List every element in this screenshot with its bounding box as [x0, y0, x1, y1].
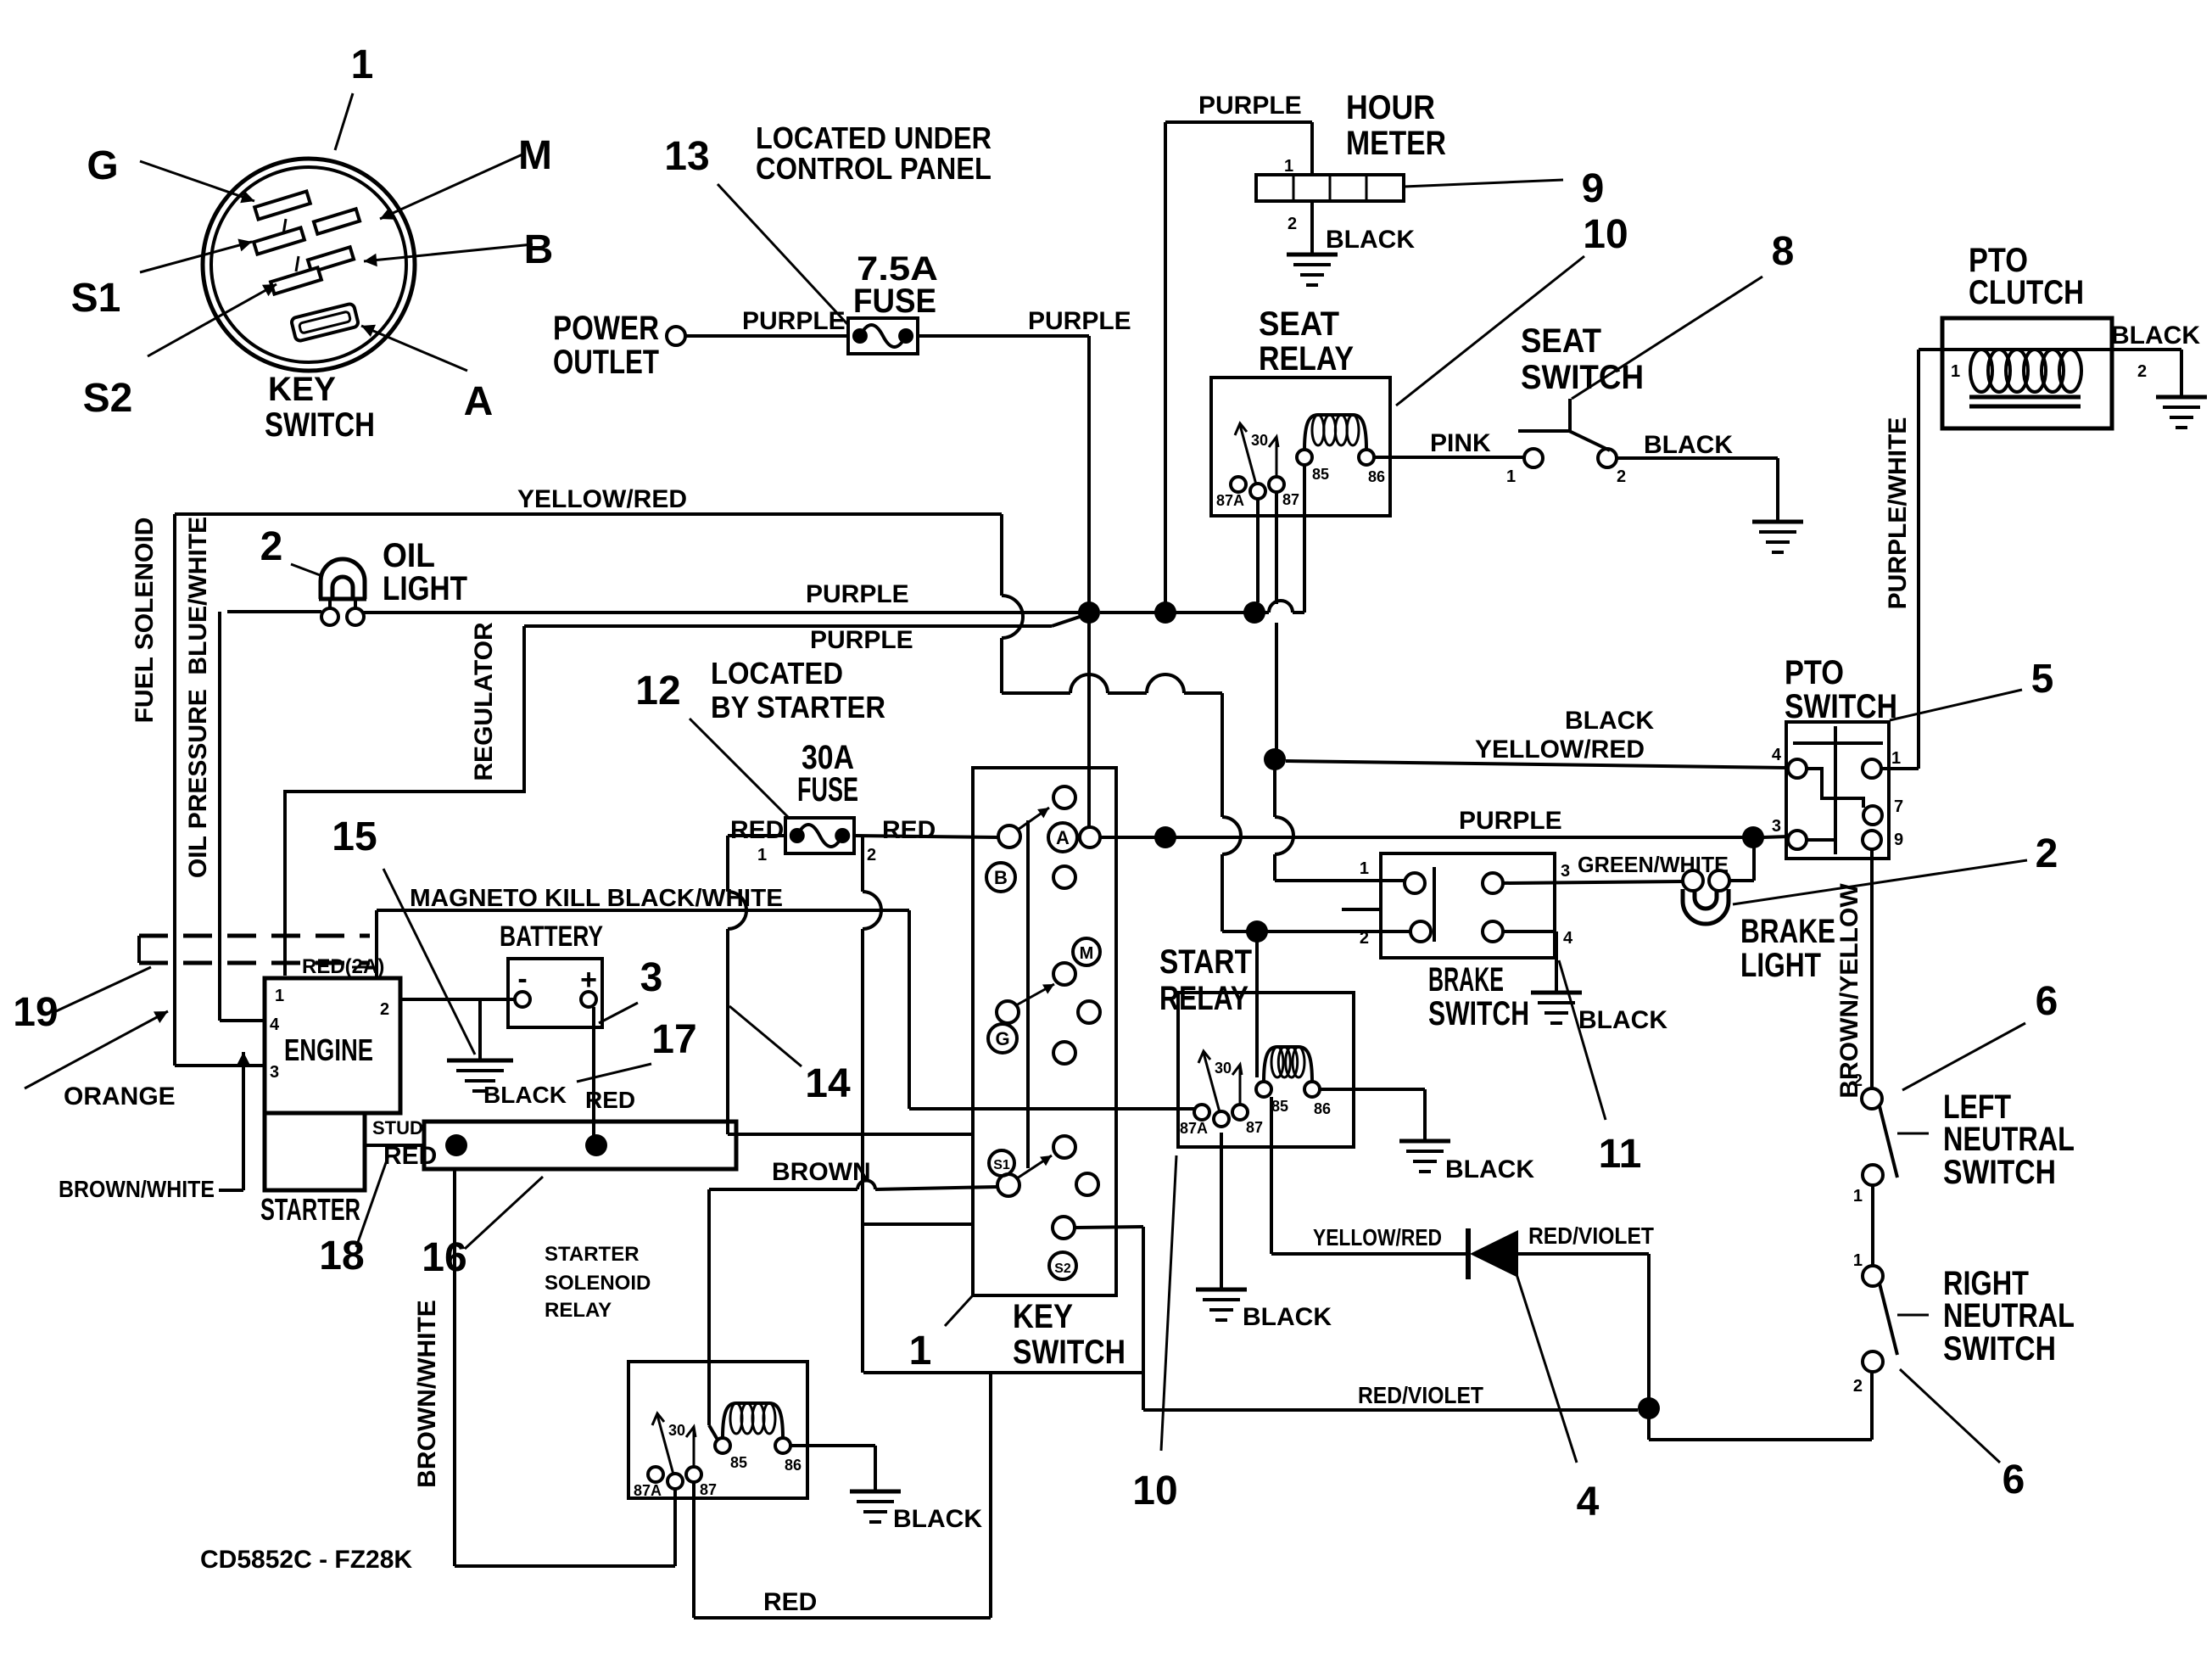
- key switch terminal M: [1073, 938, 1100, 965]
- svg-text:CLUTCH: CLUTCH: [1969, 274, 2084, 311]
- svg-text:86: 86: [1314, 1100, 1331, 1117]
- seat relay box: [1211, 378, 1390, 516]
- svg-text:1: 1: [1284, 157, 1293, 176]
- wire brake switch 4 to ground: [1503, 930, 1556, 933]
- wire yellow/red node to brake switch 2 and start relay: [1246, 920, 1268, 943]
- svg-text:RED: RED: [763, 1588, 817, 1616]
- svg-text:2: 2: [260, 524, 283, 569]
- svg-text:PURPLE: PURPLE: [1459, 807, 1562, 835]
- svg-text:FUSE: FUSE: [797, 771, 858, 808]
- key switch arrow B to A: [1018, 808, 1049, 830]
- wire BROWN/WHITE label+arrow: [219, 1189, 243, 1192]
- engine box: [265, 978, 400, 1113]
- svg-text:3: 3: [1561, 862, 1570, 881]
- wire seat relay 86 to seat switch (PINK): [1374, 456, 1524, 459]
- leader arrow S2: [148, 284, 276, 356]
- key switch connector internal link 2: [296, 256, 299, 271]
- key switch contact right col low: [1053, 1042, 1075, 1064]
- oil light symbol: [321, 559, 365, 599]
- wire key switch A to purple junction: [1100, 836, 1155, 839]
- relay K3 contacts: [648, 1467, 663, 1482]
- svg-text:S1: S1: [71, 276, 121, 321]
- wire oil pressure vertical: [218, 612, 221, 1021]
- svg-text:3: 3: [270, 1063, 279, 1082]
- pto switch terminal 3: [1788, 831, 1807, 849]
- key switch contact B-row left: [998, 825, 1020, 848]
- wire purple bus lower (regulator branch): [524, 624, 1052, 628]
- fuse F1 7.5A: [848, 318, 918, 354]
- svg-text:BLACK: BLACK: [1326, 226, 1415, 254]
- relay K3 coil: [715, 1438, 730, 1453]
- wire start relay 86 to ground: [1320, 1088, 1425, 1091]
- wire red bottom up to S2 branch: [989, 1373, 992, 1618]
- wire regulator loop: [285, 626, 524, 976]
- key switch contact right col mid: [1078, 1001, 1100, 1023]
- svg-text:STUD: STUD: [372, 1117, 423, 1138]
- svg-text:PURPLE/WHITE: PURPLE/WHITE: [1884, 417, 1912, 610]
- leader line 15 to battery ground: [383, 869, 475, 1055]
- svg-text:BATTERY: BATTERY: [500, 920, 603, 953]
- svg-text:MAGNETO KILL BLACK/WHITE: MAGNETO KILL BLACK/WHITE: [410, 885, 783, 912]
- ground (brake switch): [1531, 991, 1582, 995]
- svg-text:RED: RED: [383, 1142, 437, 1170]
- leader arrow orange wire: [25, 1011, 168, 1088]
- svg-text:RELAY: RELAY: [1259, 340, 1354, 378]
- svg-text:OUTLET: OUTLET: [553, 344, 659, 381]
- solenoid stud terminal right: [585, 1134, 607, 1156]
- wire brown branch down to relay coil: [707, 1189, 711, 1425]
- battery terminals: [515, 992, 530, 1007]
- svg-text:HOUR: HOUR: [1346, 89, 1435, 126]
- wire purple bus middle segment: [1100, 611, 1155, 614]
- ground (pto clutch): [2156, 395, 2207, 400]
- wire pto clutch pin1: [1919, 348, 2181, 351]
- key switch contact S1: [997, 1174, 1019, 1196]
- svg-text:SWITCH: SWITCH: [1785, 688, 1897, 725]
- svg-text:2: 2: [2137, 362, 2147, 381]
- svg-text:10: 10: [1132, 1469, 1177, 1513]
- key switch terminal B: [986, 863, 1015, 892]
- svg-text:CONTROL PANEL: CONTROL PANEL: [756, 151, 991, 186]
- ground (battery): [447, 1059, 513, 1063]
- left neutral switch terminal 2: [1862, 1088, 1882, 1109]
- svg-text:PINK: PINK: [1430, 429, 1491, 457]
- svg-text:FUEL SOLENOID: FUEL SOLENOID: [131, 517, 159, 724]
- svg-text:2: 2: [1853, 1377, 1863, 1396]
- svg-text:G: G: [87, 143, 118, 188]
- brake switch actuator: [1342, 908, 1381, 911]
- wire start relay 30 to ground: [1220, 1133, 1223, 1290]
- svg-text:SWITCH: SWITCH: [265, 406, 375, 444]
- svg-text:PURPLE: PURPLE: [810, 626, 913, 654]
- svg-text:6: 6: [2003, 1457, 2025, 1502]
- wire yellow/red down to start relay node: [1221, 693, 1224, 817]
- svg-text:30: 30: [668, 1422, 685, 1439]
- svg-text:YELLOW/RED: YELLOW/RED: [1313, 1224, 1442, 1250]
- svg-text:12: 12: [635, 669, 680, 713]
- svg-text:OIL: OIL: [383, 537, 435, 574]
- right neutral switch blade: [1880, 1284, 1897, 1355]
- key switch terminal S2: [1049, 1252, 1076, 1279]
- svg-text:1: 1: [909, 1329, 932, 1373]
- leader line 19 to harness: [56, 967, 151, 1011]
- junction purple bus / seat relay: [1243, 601, 1265, 624]
- wire yellow/red lower run with hops: [1002, 691, 1070, 695]
- wire S2 branch down to red/violet: [1142, 1227, 1145, 1410]
- svg-text:4: 4: [1563, 929, 1573, 948]
- svg-text:S2: S2: [83, 376, 133, 421]
- svg-text:BRAKE: BRAKE: [1428, 961, 1504, 999]
- svg-text:RED/VIOLET: RED/VIOLET: [1528, 1222, 1654, 1249]
- key switch terminal G: [988, 1024, 1017, 1053]
- svg-text:BLACK: BLACK: [1565, 707, 1654, 735]
- leader line 16 to solenoid bar: [465, 1177, 543, 1249]
- svg-text:START: START: [1159, 943, 1252, 981]
- svg-text:BY STARTER: BY STARTER: [711, 690, 885, 724]
- harness dashed bracket: [137, 936, 141, 963]
- svg-text:BROWN/WHITE: BROWN/WHITE: [59, 1176, 215, 1202]
- key switch arrow G to M: [1016, 984, 1054, 1005]
- leader line 13 to 7.5A fuse: [718, 184, 848, 325]
- power outlet terminal: [667, 327, 685, 345]
- key switch contact right of A: [1080, 827, 1100, 848]
- key switch connector outer circle: [203, 159, 415, 371]
- svg-text:NEUTRAL: NEUTRAL: [1943, 1121, 2075, 1158]
- seat switch terminal 2: [1598, 449, 1617, 467]
- leader line 5 to pto switch: [1890, 690, 2022, 720]
- leader arrow M: [380, 154, 522, 219]
- svg-text:B: B: [994, 867, 1008, 888]
- leader arrow B: [364, 244, 533, 261]
- svg-text:GREEN/WHITE: GREEN/WHITE: [1578, 852, 1729, 877]
- svg-text:SEAT: SEAT: [1259, 305, 1339, 343]
- svg-text:PTO: PTO: [1785, 654, 1844, 691]
- pto switch internals: [1793, 741, 1883, 745]
- pto switch terminal 9: [1863, 831, 1881, 849]
- wire key switch S2 out: [1075, 1227, 1143, 1228]
- svg-text:86: 86: [1368, 468, 1385, 485]
- svg-text:4: 4: [1772, 746, 1782, 764]
- wire MAGNETO KILL BLACK/WHITE: [375, 910, 378, 978]
- leader line 9 to hour meter: [1404, 180, 1563, 187]
- solenoid stud terminal left: [445, 1134, 467, 1156]
- wire brown/white up to engine: [242, 1052, 245, 1190]
- svg-text:REGULATOR: REGULATOR: [470, 622, 498, 781]
- svg-text:2: 2: [1360, 929, 1369, 948]
- svg-text:5: 5: [2031, 657, 2054, 702]
- svg-text:30: 30: [1215, 1060, 1232, 1077]
- key switch contact below A: [1053, 866, 1075, 888]
- diode D1: [1466, 1228, 1471, 1279]
- starter box: [265, 1113, 365, 1190]
- wire 30A fuse to key switch A: [854, 836, 998, 837]
- svg-text:2: 2: [2036, 831, 2058, 876]
- fuse F2 30A: [785, 818, 854, 853]
- right neutral switch terminal 2: [1863, 1351, 1883, 1372]
- svg-text:BROWN/YELLOW: BROWN/YELLOW: [1835, 883, 1863, 1099]
- wire between neutral switches: [1871, 1185, 1874, 1266]
- svg-text:RELAY: RELAY: [1159, 980, 1248, 1017]
- svg-text:B: B: [524, 227, 554, 272]
- junction red wire / hour meter purple: [1154, 826, 1176, 848]
- start relay box: [1178, 993, 1354, 1147]
- right neutral switch terminal 1: [1863, 1266, 1883, 1286]
- key switch pin blade B: [308, 247, 354, 272]
- svg-text:BLACK: BLACK: [893, 1505, 982, 1533]
- leader line 10 to seat relay: [1396, 256, 1584, 406]
- pto switch terminal 7: [1863, 806, 1882, 825]
- brake switch terminal 2: [1410, 921, 1431, 942]
- svg-text:PURPLE: PURPLE: [1198, 92, 1302, 120]
- key switch contact target (above A): [1053, 786, 1075, 808]
- wire BROWN to key switch S1: [709, 1188, 857, 1191]
- svg-text:7: 7: [1894, 797, 1903, 816]
- wire 7.5A fuse to purple bus corner: [918, 334, 1089, 338]
- svg-text:LIGHT: LIGHT: [1740, 947, 1821, 984]
- svg-text:4: 4: [270, 1015, 280, 1034]
- svg-text:BLACK: BLACK: [1243, 1303, 1332, 1331]
- svg-text:STARTER: STARTER: [545, 1243, 640, 1266]
- key switch connector inner circle: [211, 167, 406, 362]
- svg-text:LOCATED: LOCATED: [711, 656, 843, 691]
- svg-text:1: 1: [757, 846, 767, 864]
- wire yellow/red vertical segment: [1000, 514, 1003, 596]
- wire engine pin2 to battery minus: [400, 998, 515, 1001]
- brake switch contact bar: [1433, 867, 1436, 942]
- svg-text:87A: 87A: [1216, 492, 1244, 509]
- svg-text:1: 1: [1951, 362, 1960, 381]
- svg-text:PURPLE: PURPLE: [742, 307, 846, 335]
- svg-text:2: 2: [1617, 467, 1626, 486]
- svg-text:SEAT: SEAT: [1521, 322, 1601, 360]
- wire purple feed down to key switch A: [1087, 336, 1091, 613]
- leader line 14: [729, 1006, 802, 1066]
- svg-text:BLACK: BLACK: [483, 1082, 567, 1108]
- wire hour meter to ground: [1310, 201, 1314, 255]
- ground (start relay 30): [1196, 1288, 1247, 1292]
- harness dashed line upper: [139, 934, 370, 938]
- leader line 1 to key switch connector: [335, 93, 353, 150]
- key switch contact below M: [1053, 963, 1075, 985]
- wire oil pressure to engine pin4: [220, 1019, 265, 1022]
- wire red branch to key switch S2 row: [863, 1222, 973, 1226]
- leader line 12 to 30A fuse: [690, 719, 788, 817]
- svg-text:M: M: [518, 133, 552, 178]
- junction purple / brake light: [1742, 826, 1764, 848]
- brake switch box: [1381, 853, 1555, 958]
- junction purple bus / fuse feed: [1078, 601, 1100, 624]
- pto switch terminal 1: [1863, 759, 1881, 778]
- key switch contact right of S1: [1076, 1173, 1098, 1195]
- brake switch terminal 4: [1483, 921, 1503, 942]
- wire YELLOW/RED top horizontal: [175, 512, 1002, 516]
- svg-text:OIL PRESSURE BLUE/WHITE: OIL PRESSURE BLUE/WHITE: [184, 517, 212, 878]
- svg-text:RELAY: RELAY: [545, 1299, 612, 1322]
- pto clutch core: [1969, 395, 2081, 400]
- svg-text:M: M: [1080, 944, 1094, 963]
- svg-text:19: 19: [13, 990, 58, 1035]
- svg-text:SWITCH: SWITCH: [1013, 1334, 1126, 1371]
- svg-text:RED: RED: [730, 816, 784, 844]
- key switch contact S2: [1053, 1217, 1075, 1239]
- svg-text:BLACK: BLACK: [1578, 1006, 1667, 1034]
- svg-text:8: 8: [1772, 229, 1795, 274]
- svg-text:PURPLE: PURPLE: [1028, 307, 1131, 335]
- svg-text:4: 4: [1577, 1480, 1600, 1525]
- svg-text:S1: S1: [993, 1158, 1010, 1172]
- svg-text:ENGINE: ENGINE: [284, 1032, 373, 1067]
- svg-text:YELLOW/RED: YELLOW/RED: [1475, 736, 1645, 764]
- ground (hour meter): [1287, 253, 1338, 257]
- svg-text:BROWN: BROWN: [772, 1158, 871, 1186]
- leader line 3 to battery plus: [599, 1003, 638, 1023]
- svg-text:LOCATED UNDER: LOCATED UNDER: [756, 120, 991, 155]
- junction red/violet node: [1638, 1397, 1660, 1419]
- leader line 2 to oil light: [291, 564, 322, 576]
- left neutral switch terminal 1: [1863, 1165, 1883, 1185]
- svg-text:1: 1: [1506, 467, 1516, 486]
- svg-text:G: G: [995, 1028, 1009, 1049]
- svg-text:15: 15: [332, 814, 377, 859]
- svg-text:LIGHT: LIGHT: [383, 570, 467, 607]
- left neutral switch blade: [1880, 1106, 1897, 1178]
- svg-text:BLACK: BLACK: [1644, 431, 1733, 459]
- svg-text:RED/VIOLET: RED/VIOLET: [1358, 1382, 1483, 1408]
- wire power outlet to 7.5A fuse: [685, 334, 848, 338]
- svg-text:86: 86: [785, 1457, 802, 1474]
- svg-text:SWITCH: SWITCH: [1943, 1330, 2056, 1368]
- wire brake switch 3 GREEN/WHITE: [1503, 881, 1683, 883]
- svg-text:S2: S2: [1054, 1262, 1071, 1276]
- wire solenoid bar to relay 30: [453, 1169, 456, 1566]
- wire red branch down from fuse output: [861, 836, 864, 892]
- svg-text:BROWN/WHITE: BROWN/WHITE: [413, 1300, 441, 1488]
- svg-text:87: 87: [700, 1481, 717, 1498]
- key switch pin blade G: [254, 191, 310, 219]
- wire battery minus ground tap: [478, 999, 482, 1060]
- start relay coil: [1256, 1082, 1271, 1097]
- key switch pin blade A: [291, 303, 360, 342]
- svg-text:30: 30: [1251, 432, 1268, 449]
- svg-text:1: 1: [1891, 749, 1901, 768]
- svg-text:9: 9: [1582, 166, 1605, 211]
- wire purple bus to seat relay 85: [1265, 611, 1269, 614]
- leader line 6 to right neutral switch: [1900, 1369, 2000, 1463]
- key switch terminal A: [1048, 823, 1077, 852]
- svg-text:13: 13: [664, 134, 709, 179]
- wire RED/VIOLET bottom run: [1143, 1408, 1638, 1412]
- svg-text:2: 2: [1288, 215, 1297, 233]
- svg-text:1: 1: [1360, 859, 1369, 878]
- wire purple bus upper (oil light to junction): [227, 610, 321, 613]
- svg-text:2: 2: [1853, 1071, 1863, 1090]
- junction purple bus / hour meter feed: [1154, 601, 1176, 624]
- svg-text:NEUTRAL: NEUTRAL: [1943, 1297, 2075, 1334]
- key switch pin blade S2: [271, 267, 321, 294]
- wire RED bottom run: [694, 1616, 991, 1620]
- svg-text:A: A: [464, 379, 494, 424]
- key switch contact above S1 arrow: [1053, 1136, 1075, 1158]
- key switch terminal S1: [989, 1150, 1014, 1176]
- svg-text:3: 3: [1772, 817, 1781, 836]
- wire seat relay 87 down: [1275, 492, 1278, 604]
- svg-text:10: 10: [1583, 212, 1628, 257]
- svg-text:KEY: KEY: [268, 371, 336, 408]
- svg-text:+: +: [580, 964, 597, 996]
- svg-text:87A: 87A: [634, 1482, 662, 1499]
- svg-text:11: 11: [1599, 1132, 1642, 1177]
- svg-text:1: 1: [275, 987, 284, 1005]
- brake light symbol: [1683, 889, 1729, 924]
- svg-text:RED: RED: [882, 816, 936, 844]
- ground (relay K3): [850, 1490, 901, 1494]
- leader line 17 to battery red wire: [577, 1064, 651, 1082]
- leader line 8 to seat switch: [1572, 277, 1762, 399]
- leader line 10 to start relay: [1161, 1155, 1176, 1451]
- wire purple feed to hour meter: [1164, 122, 1167, 613]
- svg-text:85: 85: [1312, 466, 1329, 483]
- key switch connector internal link: [283, 219, 286, 234]
- leader arrow S1: [140, 242, 252, 272]
- leader line 18 to stud: [356, 1155, 388, 1247]
- svg-text:SWITCH: SWITCH: [1943, 1154, 2056, 1191]
- key switch contact G-row: [997, 1001, 1019, 1023]
- wire seat switch to ground (BLACK): [1617, 456, 1778, 460]
- start relay contacts: [1194, 1105, 1209, 1120]
- wire fuel solenoid to engine pin3: [175, 1064, 265, 1067]
- leader line 6 to left neutral switch: [1902, 1023, 2025, 1090]
- leader arrow G: [140, 161, 254, 201]
- ground (start relay 86): [1399, 1139, 1450, 1144]
- leader arrow A: [361, 326, 467, 371]
- svg-text:METER: METER: [1346, 125, 1446, 162]
- svg-text:9: 9: [1894, 831, 1903, 849]
- svg-text:87: 87: [1246, 1119, 1263, 1136]
- svg-text:ORANGE: ORANGE: [64, 1083, 176, 1111]
- pto switch box: [1786, 722, 1889, 859]
- key switch box: [973, 768, 1116, 1295]
- svg-text:BLACK: BLACK: [1445, 1155, 1534, 1183]
- wire starter stud: [365, 1144, 424, 1147]
- svg-text:A: A: [1056, 827, 1070, 848]
- wire red/violet node to right neutral switch: [1647, 1418, 1651, 1440]
- wire PURPLE/WHITE vertical: [1917, 350, 1920, 769]
- svg-text:85: 85: [730, 1454, 747, 1471]
- wire 30A fuse left corner: [728, 834, 785, 837]
- svg-text:BRAKE: BRAKE: [1740, 913, 1835, 950]
- svg-text:BLACK: BLACK: [2111, 322, 2200, 350]
- wire 30A fuse feed to key switch box: [728, 1133, 973, 1136]
- svg-text:SWITCH: SWITCH: [1428, 995, 1529, 1032]
- svg-text:6: 6: [2036, 979, 2058, 1024]
- svg-text:2: 2: [380, 1000, 389, 1019]
- svg-text:FUSE: FUSE: [853, 283, 936, 320]
- svg-text:1: 1: [351, 42, 374, 87]
- key switch arrow S1: [1017, 1155, 1052, 1178]
- svg-text:KEY: KEY: [1013, 1298, 1073, 1335]
- leader line 2 to brake light: [1733, 860, 2027, 904]
- battery box: [508, 959, 602, 1027]
- svg-text:PURPLE: PURPLE: [806, 580, 909, 608]
- seat relay coil: [1297, 450, 1312, 465]
- seat relay contacts: [1231, 477, 1246, 492]
- leader line 1 to key switch box: [945, 1296, 972, 1326]
- svg-text:CD5852C - FZ28K: CD5852C - FZ28K: [200, 1546, 412, 1574]
- relay K3 box (starter solenoid relay): [628, 1362, 807, 1498]
- brake light terminals: [1683, 870, 1703, 891]
- pto clutch coil: [1970, 350, 1992, 392]
- svg-text:17: 17: [651, 1017, 696, 1062]
